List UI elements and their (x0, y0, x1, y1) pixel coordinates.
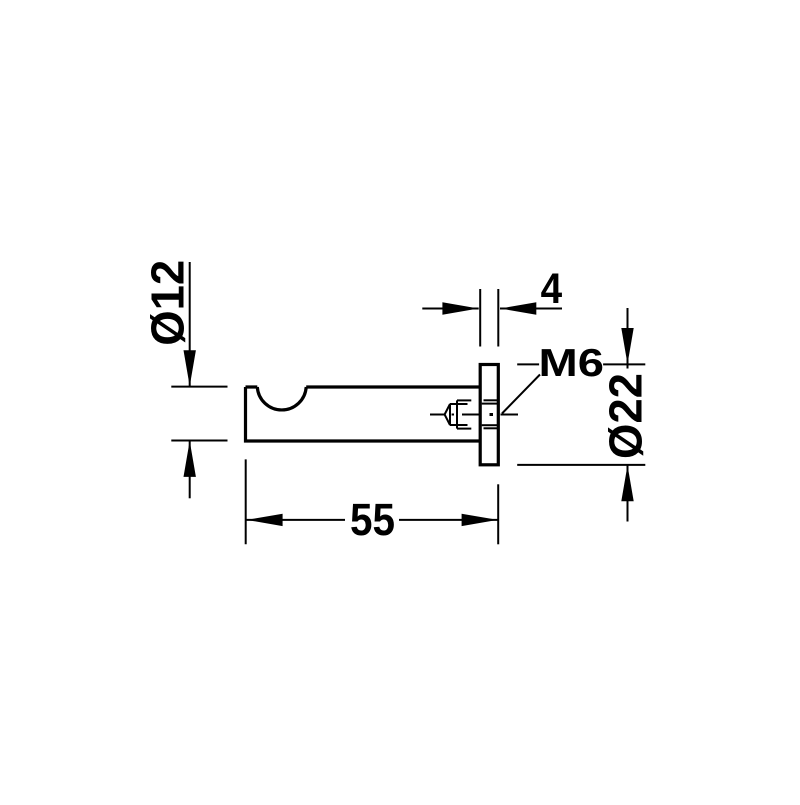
extension line top (171, 386, 227, 388)
extension line right (497, 289, 499, 347)
extension line top (two segments around M6) (517, 363, 539, 365)
dimension 55 (bottom) (246, 459, 499, 544)
set screw M6 (430, 400, 518, 428)
thread crest lines (457, 399, 471, 401)
extension line left (245, 459, 247, 544)
dimension line right (500, 308, 562, 310)
dimension Ø22 (right) (517, 308, 645, 522)
dimension line upper (189, 262, 191, 386)
screw end face (456, 400, 458, 428)
arrow down (Ø12) (184, 350, 196, 386)
dimension line left of text (246, 519, 345, 521)
svg-text:55: 55 (350, 494, 395, 545)
rod notch (semicircle) (257, 387, 306, 410)
dimension line bottom (627, 466, 629, 522)
svg-text:M6: M6 (539, 342, 605, 385)
centerline short dash (452, 414, 454, 416)
extension line right (497, 484, 499, 544)
dimension line left (422, 308, 478, 310)
svg-text:Ø22: Ø22 (600, 373, 652, 459)
flange hole thread lines (484, 399, 498, 401)
centerline dash left (430, 414, 444, 416)
centerline through body (462, 414, 479, 416)
arrow left (55) (247, 514, 283, 526)
bracket body outline (246, 365, 499, 465)
thread root lines (450, 403, 468, 405)
flange rectangle (480, 365, 498, 465)
dimension line right of text (399, 519, 498, 521)
arrow down (Ø22) (621, 328, 633, 364)
dimension line lower (189, 441, 191, 498)
cone point (445, 404, 450, 425)
dimension line top (627, 308, 629, 369)
centerline right of flange (501, 414, 519, 416)
extension line left (479, 289, 481, 347)
svg-text:4: 4 (541, 265, 563, 313)
label M6 with leader (502, 375, 540, 414)
extension line bottom (171, 440, 227, 442)
arrow up (Ø22) (621, 465, 633, 501)
svg-text:Ø12: Ø12 (141, 260, 193, 346)
arrow left (4) (500, 302, 536, 314)
arrow up (Ø12) (184, 441, 196, 477)
dimension 4 (flange thickness, top) (422, 289, 562, 347)
dimension Ø12 (left) (171, 262, 227, 498)
arrow right (4) (442, 302, 478, 314)
extension line bottom (517, 464, 645, 466)
center mark in flange (490, 413, 494, 416)
arrow right (55) (462, 514, 498, 526)
